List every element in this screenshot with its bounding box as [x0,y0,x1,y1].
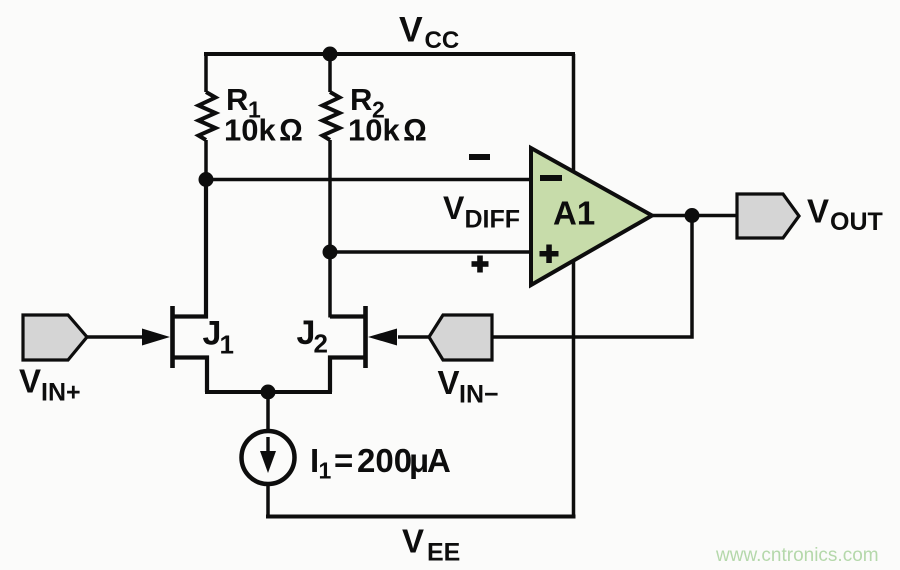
resistor R2 [323,52,340,318]
label − (inverting input wire) [469,154,490,160]
wire: op-amp supply rail (VCC down to VEE) [572,54,576,517]
connector VIN+ [23,315,87,360]
op-amp A1 [531,148,652,285]
wire VEE bottom rail [266,515,576,519]
label VIN− [438,364,499,409]
svg-text:EE: EE [427,539,460,567]
svg-text:CC: CC [425,27,460,54]
svg-text:IN−: IN− [459,381,499,409]
label I1 = 200 µA [310,442,451,484]
svg-text:2: 2 [314,329,328,359]
svg-text:1: 1 [220,330,234,360]
svg-text:www.cntronics.com: www.cntronics.com [715,545,879,566]
junction: sources to current source [261,385,276,400]
svg-text:V: V [807,193,829,230]
label VDIFF [443,190,520,234]
wire+arrow: VIN+ to J1 gate [86,329,170,346]
svg-text:A1: A1 [553,195,595,232]
junction node: R1 / J1 drain / inverting input [199,172,214,187]
label VIN+ [19,363,81,407]
label R2 10kΩ [348,82,427,148]
svg-text:V: V [438,364,460,401]
svg-text:V: V [399,10,423,50]
transistor J1 [173,180,208,392]
svg-text:OUT: OUT [830,208,883,236]
svg-text:200: 200 [357,442,412,479]
wire: J1 source to J2 source [205,390,332,394]
wire: op-amp output [652,214,738,218]
transistor J2 [330,306,366,392]
wire: feedback output node down and left to VIN− [491,216,692,338]
net label VCC [399,10,459,55]
svg-text:10kΩ: 10kΩ [224,113,303,148]
svg-text:IN+: IN+ [41,379,81,407]
net label VEE [402,523,460,567]
svg-text:V: V [443,190,465,226]
label R1 10kΩ [224,82,303,148]
label J2 [297,314,328,359]
junction: R2 to VCC rail [323,47,338,62]
label VOUT [807,193,883,237]
svg-text:A: A [427,442,451,479]
svg-text:V: V [402,523,424,560]
svg-text:1: 1 [319,458,332,484]
connector VIN− [429,315,492,360]
label + (noninverting input wire) [472,256,489,273]
current source I1 [242,431,295,484]
junction node: R2 / J2 drain / noninverting input [323,245,338,260]
connector VOUT [737,194,799,238]
wire: node to op-amp noninverting input [330,250,533,254]
wire+arrow: VIN− to J2 gate [368,329,430,346]
resistor R1 [199,52,216,180]
label J1 [203,315,234,360]
wire: node to op-amp inverting input [206,178,533,182]
wire: junction down to current source [266,392,270,432]
junction: output node [685,208,700,223]
wire: current source to VEE rail [266,482,270,518]
svg-text:V: V [19,363,41,400]
svg-text:10kΩ: 10kΩ [348,113,427,148]
wire VCC top rail [204,52,575,56]
svg-text:DIFF: DIFF [465,206,521,234]
svg-text:=: = [334,442,353,479]
